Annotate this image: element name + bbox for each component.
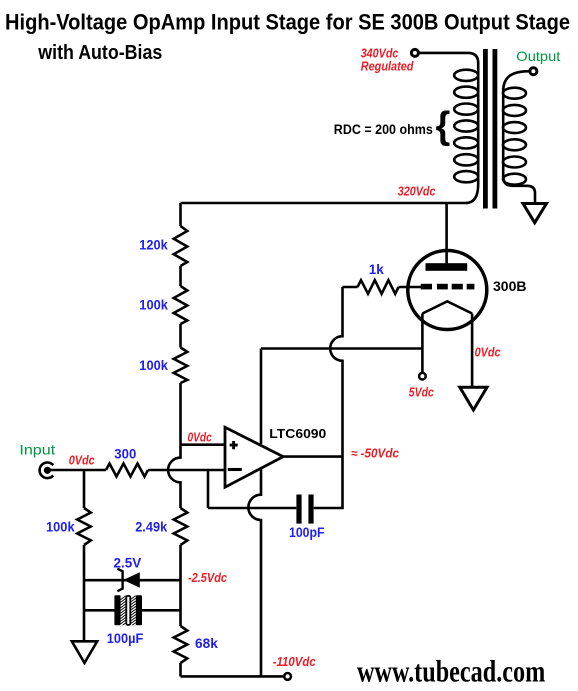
capacitor 100pF [289,495,325,541]
wire cathode feedback (horizontal) [261,347,422,350]
resistor 100k (lower) [139,324,187,445]
tube 300B filament/cathode [422,301,472,313]
svg-text:300B: 300B [493,278,526,294]
label RDC brace [334,105,450,147]
svg-text:www.tubecad.com: www.tubecad.com [357,653,545,688]
wire opamp V- supply with hop [248,468,261,676]
wire bottom rail to -110Vdc terminal [181,655,316,680]
wire input row [47,469,106,472]
resistor 300 [106,447,224,477]
transformer T1 core [483,49,497,209]
svg-text:100k: 100k [139,297,168,312]
capacitor 100uF electrolytic [84,592,181,647]
svg-text:2.5V: 2.5V [114,555,142,570]
op-amp U1 LTC6090 [225,426,326,487]
transformer T1 primary winding [454,70,478,183]
node Input terminal [19,441,94,478]
tube 300B grid [421,284,475,290]
resistor 2.49k [135,508,187,626]
svg-text:5Vdc: 5Vdc [409,385,434,399]
svg-text:RDC = 200 ohms: RDC = 200 ohms [334,121,433,137]
svg-text:100pF: 100pF [289,525,325,540]
svg-text:-2.5Vdc: -2.5Vdc [188,571,227,585]
svg-text:{: { [436,105,451,147]
wire cathode right leg [472,314,501,388]
title [5,10,570,64]
svg-text:with Auto-Bias: with Auto-Bias [37,42,162,64]
zener diode 2.5V [84,555,227,591]
resistor 1k (grid stopper) [343,262,422,294]
wire 320Vdc rail [181,202,469,205]
resistor 100k (input shunt) [46,470,91,641]
watermark www.tubecad.com [357,653,545,688]
svg-text:Output: Output [516,48,560,64]
svg-text:2.49k: 2.49k [135,519,167,534]
ground (secondary) [523,204,547,223]
svg-text:High-Voltage OpAmp Input Stage: High-Voltage OpAmp Input Stage for SE 30… [5,10,570,35]
svg-text:Regulated: Regulated [361,60,414,74]
node 340Vdc terminal [361,47,419,74]
wire - input node down to feedback row [208,470,296,508]
svg-text:LTC6090: LTC6090 [269,426,326,441]
svg-text:100k: 100k [46,519,75,534]
svg-text:0Vdc: 0Vdc [69,453,95,467]
node 320Vdc label [398,184,436,198]
tube 300B envelope [408,251,527,330]
svg-text:≈ -50Vdc: ≈ -50Vdc [351,447,399,461]
ground (input shunt) [72,641,97,663]
wire to opamp + input [181,431,225,445]
svg-text:68k: 68k [195,636,218,651]
svg-text:0Vdc: 0Vdc [188,431,212,445]
wire opamp V+ supply [260,349,263,445]
wire plate lead [445,203,448,263]
wire grid/output vertical with hop over cathode wire [314,287,343,508]
resistor 100k (upper) [139,266,187,324]
svg-text:100µF: 100µF [107,631,144,646]
svg-text:340Vdc: 340Vdc [361,47,399,61]
resistor 68k [174,626,219,676]
svg-text:120k: 120k [139,238,168,253]
tube 300B plate [426,263,468,271]
wire + node down with hop over - wire [168,445,180,508]
svg-text:100k: 100k [139,358,168,373]
svg-text:0Vdc: 0Vdc [475,345,501,359]
resistor 120k [139,203,187,266]
transformer T1 secondary winding [503,71,535,203]
node Output terminal [516,48,560,75]
ground (cathode) [460,387,487,410]
wire 340Vdc to primary top [419,53,478,203]
svg-text:Input: Input [19,441,55,457]
svg-text:-110Vdc: -110Vdc [273,655,316,669]
svg-text:300: 300 [114,447,136,462]
wire opamp output [283,447,399,461]
wire cathode left leg to 5Vdc terminal [409,314,434,400]
svg-text:320Vdc: 320Vdc [398,184,436,198]
svg-text:1k: 1k [369,262,385,277]
